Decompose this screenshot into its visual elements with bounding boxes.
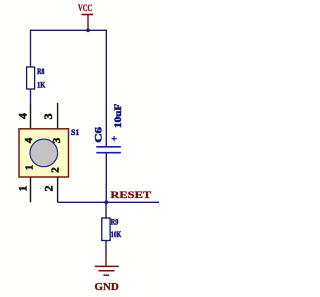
svg-text:4: 4 [16, 113, 30, 119]
ground symbol bar 1 [95, 265, 119, 267]
capacitor C6 plus mark [112, 136, 117, 141]
svg-text:2: 2 [49, 167, 61, 173]
svg-text:RESET: RESET [110, 191, 152, 201]
svg-text:10K: 10K [111, 229, 122, 239]
junction RESET node [104, 200, 108, 204]
svg-text:1K: 1K [37, 80, 46, 90]
pin 3 stub [57, 103, 59, 129]
svg-text:4: 4 [23, 137, 35, 143]
ground symbol bar 2 [99, 270, 115, 272]
svg-text:1: 1 [24, 165, 36, 171]
svg-text:3: 3 [41, 113, 55, 119]
svg-text:1: 1 [15, 186, 29, 192]
resistor R8 body [27, 67, 35, 89]
svg-text:VCC: VCC [78, 4, 92, 14]
pin 2 lead [57, 177, 59, 202]
switch S1 body [19, 129, 69, 177]
junction VCC tap [86, 28, 90, 32]
svg-text:2: 2 [42, 186, 56, 192]
ground symbol bar 3 [103, 274, 109, 276]
svg-text:GND: GND [95, 282, 119, 293]
power VCC symbol lead [87, 15, 89, 31]
svg-text:3: 3 [51, 137, 63, 143]
wire right rail to C6 [105, 30, 107, 147]
svg-text:10uF: 10uF [113, 103, 123, 128]
wire R9 to GND [105, 241, 107, 255]
wire junction to R9 [105, 202, 107, 218]
capacitor C6 top plate [96, 146, 121, 148]
wire C6 to RESET junction [105, 153, 107, 203]
capacitor C6 bottom plate [96, 152, 121, 154]
wire RESET net [58, 201, 159, 203]
switch S1 button circle [30, 139, 58, 167]
power VCC symbol bar [82, 14, 94, 16]
wire left rail to R8 [30, 30, 32, 68]
ground symbol lead [105, 253, 107, 266]
svg-text:R8: R8 [37, 66, 44, 76]
svg-text:C6: C6 [93, 126, 103, 143]
pin 1 lead [30, 177, 32, 202]
wire R8 to S1 pin 4 [30, 89, 32, 104]
wire top rail [31, 29, 107, 31]
svg-text:R9: R9 [111, 216, 119, 226]
resistor R9 body [102, 218, 110, 241]
pin 4 lead [30, 104, 32, 129]
svg-text:S1: S1 [71, 127, 79, 137]
